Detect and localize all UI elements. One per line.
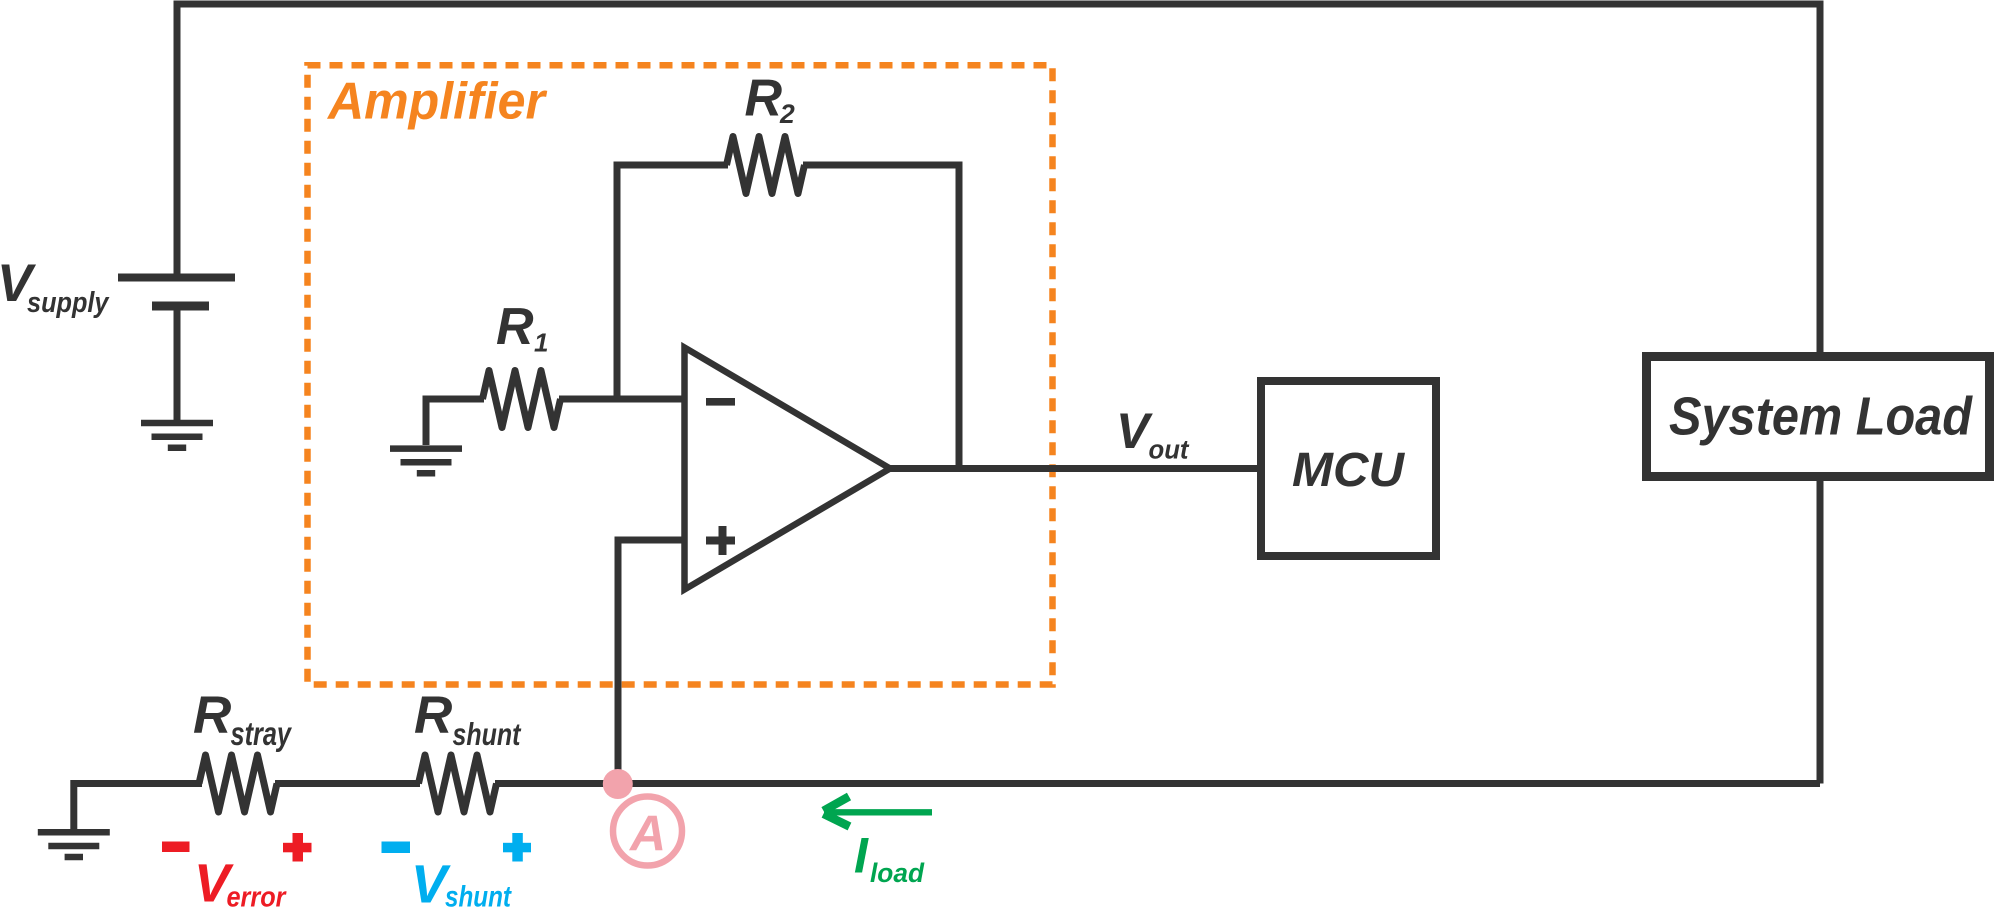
resistor R2 — [727, 137, 805, 194]
ammeter A — [613, 797, 682, 866]
op-amp minus input symbol — [706, 398, 735, 406]
node: sense junction — [603, 769, 633, 799]
wire: battery to ground — [174, 306, 181, 423]
svg-text:A: A — [628, 806, 666, 862]
wire: right riser upper — [1817, 1, 1824, 353]
op-amp U1 — [685, 348, 891, 590]
label Iload — [854, 828, 924, 889]
wire: right riser lower — [1817, 481, 1824, 784]
svg-text:supply: supply — [27, 287, 110, 319]
polarity plus Vshunt — [503, 833, 531, 862]
wire: R1 to inverting input — [559, 396, 687, 403]
polarity minus Vshunt — [382, 842, 411, 854]
svg-text:I: I — [854, 828, 869, 884]
battery Vsupply plate - — [152, 302, 209, 311]
svg-text:R: R — [496, 298, 534, 356]
wire: between Rstray and Rshunt — [275, 780, 420, 787]
label Vsupply — [0, 254, 110, 319]
dashed box Amplifier — [308, 65, 1053, 684]
svg-text:System Load: System Load — [1669, 387, 1973, 447]
svg-text:stray: stray — [231, 715, 293, 752]
wire: top rail — [174, 1, 1824, 8]
wire: bottom-left to ground — [74, 784, 202, 830]
label R1 — [496, 298, 548, 358]
box System Load — [1647, 357, 1990, 477]
svg-text:1: 1 — [534, 328, 548, 358]
resistor Rstray — [199, 755, 277, 812]
svg-text:error: error — [227, 882, 287, 910]
svg-text:MCU: MCU — [1292, 444, 1405, 497]
svg-text:R: R — [193, 686, 231, 745]
svg-text:R: R — [414, 686, 452, 745]
battery Vsupply plate + — [118, 274, 235, 282]
label Rstray — [193, 686, 292, 752]
wire: feedback left — [617, 165, 728, 399]
svg-text:Amplifier: Amplifier — [326, 73, 548, 131]
label Vout — [1116, 403, 1190, 465]
label Verror — [194, 854, 287, 910]
svg-text:2: 2 — [779, 99, 795, 129]
ground: bottom-left — [38, 832, 110, 857]
svg-text:out: out — [1149, 435, 1190, 465]
svg-text:R: R — [745, 70, 783, 128]
box MCU — [1261, 381, 1436, 556]
label Rshunt — [414, 686, 522, 752]
label Vshunt — [411, 855, 513, 910]
polarity minus Verror — [162, 842, 190, 853]
ground: R1 — [390, 449, 462, 474]
wire: left supply riser — [174, 4, 181, 277]
wire: non-inverting input — [618, 540, 687, 784]
svg-text:load: load — [870, 858, 924, 888]
label R2 — [745, 70, 796, 130]
resistor R1 — [483, 371, 561, 428]
current arrow Iload — [824, 797, 933, 827]
svg-text:shunt: shunt — [445, 881, 513, 910]
svg-text:V: V — [1116, 403, 1153, 459]
op-amp plus input symbol — [706, 526, 735, 555]
wire: bottom rail — [495, 780, 1820, 787]
resistor Rshunt — [419, 755, 497, 812]
wire: R1 ground lead — [426, 399, 484, 445]
wire: op-amp output — [888, 465, 1261, 472]
wire: feedback right — [803, 165, 959, 469]
ground: supply — [141, 423, 213, 448]
polarity plus Verror — [283, 833, 312, 862]
svg-text:shunt: shunt — [453, 716, 522, 752]
